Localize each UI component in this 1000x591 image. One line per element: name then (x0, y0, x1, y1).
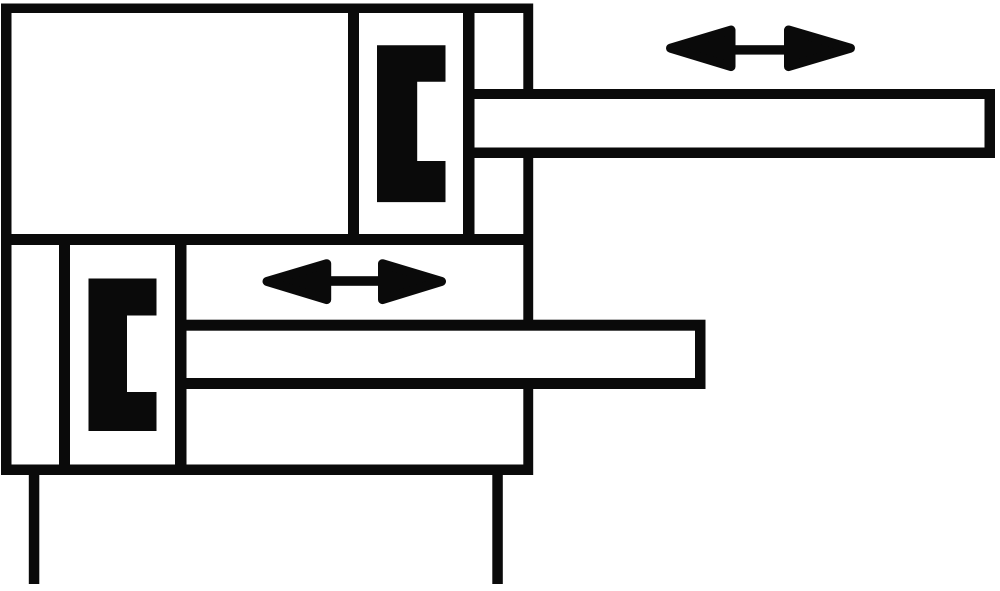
cylinder body top wall (1, 4, 533, 14)
piston rod 1 (469, 89, 995, 158)
cylinder body right wall (523, 4, 533, 476)
cylinder 1 piston rod mount wall (463, 4, 475, 246)
port line 2 (492, 475, 503, 584)
cylinder 2 piston rod mount wall (175, 234, 187, 475)
cylinder body left wall (1, 4, 12, 476)
motion arrow 1 (671, 30, 851, 67)
cylinder 2 piston seal (89, 279, 157, 432)
motion arrow 2 (267, 264, 442, 300)
piston rod 2 (176, 320, 706, 389)
cylinder 1 piston seal (377, 45, 446, 202)
cylinder body bottom wall (1, 465, 533, 476)
partition wall between cylinders (1, 234, 533, 245)
cylinder 1 piston chamber wall (348, 4, 359, 246)
cylinder 2 piston chamber wall (59, 234, 70, 475)
port line 1 (29, 475, 40, 584)
